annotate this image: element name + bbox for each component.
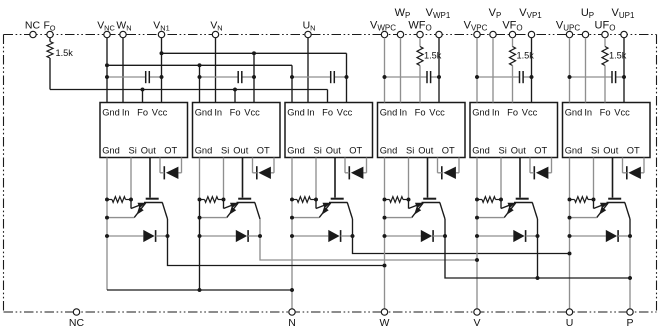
wire Q1 emitter to emitter rail <box>107 217 134 219</box>
junction C5 / VVP1 line <box>530 75 534 79</box>
capacitor C1 (U1 supply decoupling) leads <box>107 76 146 78</box>
IGBT Q3 sense-emitter lead with arrow <box>315 200 317 209</box>
U2 Out pin stub (gate lead) <box>242 158 244 198</box>
terminal F0 (top) <box>47 31 53 37</box>
terminal VWPC (top, W-phase high-side ground) <box>381 31 387 37</box>
junction emitter rail / emitter <box>290 216 294 220</box>
terminal NC (top) <box>30 31 36 37</box>
wire VF0 resistor to U5 Fo pin <box>512 66 514 103</box>
terminal W (bottom) <box>381 309 387 315</box>
svg-text:OT: OT <box>627 146 640 156</box>
IGBT Q3 gate bar <box>331 198 344 200</box>
wire cell 3 emitter rail down to terminal N <box>291 200 293 309</box>
svg-text:Gnd: Gnd <box>565 108 583 118</box>
junction C3 / U3 Vcc line <box>345 75 349 79</box>
resistor RS6 (sense resistor, Gnd to Si) <box>575 197 589 203</box>
wire WN to U1 In pin <box>122 38 124 103</box>
IGBT Q4 gate bar <box>423 198 436 200</box>
junction D1 cathode / collector <box>166 234 170 238</box>
IGBT Q2 collector lead <box>255 203 260 220</box>
wire UF0 resistor to U6 Fo pin <box>604 66 606 103</box>
diode D5 (freewheel) anode lead <box>477 235 513 237</box>
wire Q4 emitter to emitter rail <box>385 217 412 219</box>
wire Q6 emitter to emitter rail <box>570 217 597 219</box>
svg-text:Vcc: Vcc <box>152 108 168 118</box>
junction C6 / VUPC line <box>568 75 572 79</box>
wire VUPC to U6 Gnd pin <box>569 38 571 103</box>
U4 Out pin stub (gate lead) <box>427 158 429 198</box>
wire UN to U3 In pin <box>307 38 309 103</box>
junction D6 anode / emitter rail <box>568 234 572 238</box>
gate-driver IC U3 (box) <box>285 103 373 158</box>
terminal VVP1 (top, V-phase high-side supply) <box>528 31 534 37</box>
diode D4 body <box>421 230 432 242</box>
junction D5 cathode / collector <box>536 234 540 238</box>
diode D5 cathode lead <box>526 235 538 237</box>
junction D4 cathode / collector <box>443 234 447 238</box>
junction C4 / VWP1 line <box>437 75 441 79</box>
IGBT Q6 sense-emitter lead with arrow <box>593 200 595 209</box>
junction C6 / VUP1 line <box>622 75 626 79</box>
capacitor C4 plates <box>426 71 428 83</box>
svg-text:1.5k: 1.5k <box>56 48 74 58</box>
wire V phase riser (cell 5 emitter rail to terminal V) <box>476 200 478 309</box>
svg-text:Fo: Fo <box>600 108 611 118</box>
wire U2 Gnd pin drop <box>199 65 201 102</box>
wire Fo rail (to U1,U2,U3 Fo pins) <box>50 89 328 91</box>
U1 bottom pin labels Gnd Si Out OT <box>102 146 177 156</box>
junction D1 anode / emitter rail <box>105 234 109 238</box>
terminal N (bottom) <box>289 309 295 315</box>
wire cell 2 emitter rail <box>199 200 201 291</box>
IGBT Q2 emitter lead with arrow <box>227 203 239 218</box>
U6 Gnd pin stub (emitter-rail top) <box>569 158 571 200</box>
diode DT3 (temperature sense) anode/cathode <box>351 167 364 179</box>
diode D6 cathode lead <box>618 235 630 237</box>
IGBT Q4 body bar <box>422 202 441 204</box>
IGBT Q1 sense-emitter lead with arrow <box>130 200 132 209</box>
U4 bottom pin labels Gnd Si Out OT <box>380 146 455 156</box>
wire VNC to U1 Gnd pin <box>106 38 108 103</box>
wire DT3 cathode to stub <box>345 172 349 174</box>
resistor RS1 (sense resistor, Gnd to Si) <box>112 197 126 203</box>
gate-driver IC U6 (box) <box>563 103 651 158</box>
U2 Gnd pin stub (emitter-rail top) <box>199 158 201 200</box>
svg-text:Vcc: Vcc <box>429 108 445 118</box>
wire VN to U2 In pin <box>215 38 217 103</box>
junction RS4 / Si lead <box>407 198 411 202</box>
svg-text:Si: Si <box>129 146 137 156</box>
junction P bus / Q6 collector <box>628 276 632 280</box>
svg-text:In: In <box>214 108 222 118</box>
wire Q3 emitter to emitter rail <box>292 217 319 219</box>
capacitor C2 plates <box>237 71 239 83</box>
diode D2 (freewheel) anode lead <box>200 235 236 237</box>
wire DT5 cathode to stub <box>530 172 534 174</box>
svg-text:Vcc: Vcc <box>614 108 630 118</box>
terminal P (bottom) <box>627 309 633 315</box>
diode D4 cathode lead <box>433 235 445 237</box>
terminal WF0 (top, W-phase fault output) <box>417 31 423 37</box>
junction Vcc rail / U2 Vcc <box>252 51 256 55</box>
wire Q1 collector to W phase riser <box>168 219 385 266</box>
junction emitter rail / emitter <box>475 216 479 220</box>
junction D2 anode / emitter rail <box>198 234 202 238</box>
terminal UN (top, U-phase low-side input) <box>305 31 311 37</box>
svg-text:Gnd: Gnd <box>102 108 120 118</box>
diode D6 body <box>606 230 617 242</box>
IGBT Q4 emitter lead with arrow <box>412 203 424 218</box>
svg-text:Gnd: Gnd <box>472 146 490 156</box>
wire Q6 collector down to terminal P <box>629 219 631 236</box>
U6 OT pin stub <box>643 158 645 173</box>
junction VN1 / C1 <box>160 75 164 79</box>
module outline, right edge <box>656 35 658 313</box>
junction VNC / Gnd rail <box>105 63 109 67</box>
junction D6 cathode / collector <box>628 234 632 238</box>
U5 top pin labels Gnd In Fo Vcc <box>472 108 537 118</box>
diode DT4 (temperature sense) anode/cathode <box>443 167 456 179</box>
U1 Si pin stub <box>130 158 132 200</box>
U3 Gnd pin stub (emitter-rail top) <box>291 158 293 200</box>
capacitor C3 plates <box>330 71 332 83</box>
wire Q4 collector to P bus <box>445 219 630 278</box>
terminal V (bottom) <box>474 309 480 315</box>
gate-driver IC U4 (box) <box>378 103 466 158</box>
diode DT2 (temperature sense) anode/cathode <box>258 167 271 179</box>
capacitor C4 (U4 supply decoupling) leads <box>385 76 428 78</box>
junction dots overlay <box>105 51 632 292</box>
terminal VNC (top, N-side control ground) <box>104 31 110 37</box>
wire U3 Gnd pin drop <box>291 65 293 102</box>
junction RS3 / emitter rail <box>290 198 294 202</box>
wire F0 net: resistor to Fo rail <box>49 58 51 90</box>
wire N-side emitter rail, cell 1 (W low) <box>106 200 108 291</box>
junction RS5 / Si lead <box>499 198 503 202</box>
IGBT Q6 body bar <box>607 202 626 204</box>
U6 Si pin stub <box>593 158 595 200</box>
wire Q2 collector to V phase riser <box>260 219 477 260</box>
svg-text:In: In <box>492 108 500 118</box>
capacitor C5 plates <box>519 71 521 83</box>
junction Gnd rail / U2 Gnd <box>198 63 202 67</box>
svg-text:Si: Si <box>406 146 414 156</box>
svg-text:Gnd: Gnd <box>287 108 305 118</box>
wire VN1 Vcc rail (to U2,U3 Vcc pins) <box>162 52 347 54</box>
junction RS6 / emitter rail <box>568 198 572 202</box>
terminal VUP1 (top, U-phase high-side supply) <box>621 31 627 37</box>
U5 bottom pin labels Gnd Si Out OT <box>472 146 547 156</box>
svg-text:OT: OT <box>164 146 177 156</box>
terminal U (bottom) <box>566 309 572 315</box>
wire VVPC to U5 Gnd pin <box>476 38 478 103</box>
IGBT Q4 sense-emitter lead with arrow <box>408 200 410 209</box>
terminal NC (bottom) <box>73 309 79 315</box>
junction D4 anode / emitter rail <box>383 234 387 238</box>
junction C5 / VVPC line <box>475 75 479 79</box>
IGBT Q6 gate bar <box>608 198 621 200</box>
svg-text:Gnd: Gnd <box>472 108 490 118</box>
wire U1 Fo pin drop <box>142 90 144 103</box>
svg-text:In: In <box>122 108 130 118</box>
wire UP to U6 In pin <box>585 38 587 103</box>
wire WF0 resistor to U4 Fo pin <box>419 66 421 103</box>
wire Q5 emitter to emitter rail <box>477 217 504 219</box>
U1 OT pin stub <box>181 158 183 173</box>
junction RS4 / emitter rail <box>383 198 387 202</box>
U4 Gnd pin stub (emitter-rail top) <box>384 158 386 200</box>
wire DT4 cathode to stub <box>438 172 442 174</box>
U3 Si pin stub <box>315 158 317 200</box>
gate-driver IC U5 (box) <box>470 103 558 158</box>
wire U3 Vcc pin drop <box>346 53 348 102</box>
U4 OT pin stub <box>458 158 460 173</box>
svg-text:Vcc: Vcc <box>522 108 538 118</box>
junction C2 / U2 Gnd line <box>198 75 202 79</box>
svg-text:Gnd: Gnd <box>287 146 305 156</box>
svg-text:NC: NC <box>69 317 85 329</box>
IGBT Q5 collector lead <box>532 203 537 220</box>
junction emitter rail / emitter <box>568 216 572 220</box>
resistor R5 1.5k (VF0 pull-up) <box>512 38 514 47</box>
svg-text:U: U <box>566 317 574 329</box>
IGBT Q6 emitter lead with arrow <box>597 203 609 218</box>
U6 Out pin stub (gate lead) <box>612 158 614 198</box>
diode D2 cathode lead <box>248 235 260 237</box>
U6 bottom pin labels Gnd Si Out OT <box>565 146 640 156</box>
junction Fo rail / U1 Fo <box>141 88 145 92</box>
IGBT Q2 sense-emitter lead with arrow <box>223 200 225 209</box>
junction D3 cathode / collector <box>351 234 355 238</box>
svg-text:Out: Out <box>511 146 526 156</box>
diode DT1 (temperature sense) anode/cathode <box>166 167 179 179</box>
IGBT Q2 gate bar <box>238 198 251 200</box>
svg-text:Si: Si <box>314 146 322 156</box>
svg-text:P: P <box>626 317 633 329</box>
U1 Gnd pin stub (emitter-rail top) <box>106 158 108 200</box>
svg-text:Vcc: Vcc <box>337 108 353 118</box>
IGBT Q3 body bar <box>329 202 348 204</box>
svg-text:Fo: Fo <box>137 108 148 118</box>
wire Q5 collector drop <box>537 219 539 278</box>
resistor RS2 (sense resistor, Gnd to Si) <box>205 197 219 203</box>
svg-text:Si: Si <box>221 146 229 156</box>
capacitor C2 (U2 supply decoupling) leads <box>200 76 239 78</box>
terminal VN1 (top, N-side control supply) <box>158 31 164 37</box>
svg-text:NC: NC <box>25 20 41 32</box>
module outline, left edge <box>3 35 5 313</box>
terminal VP (top, V-phase high-side input) <box>490 31 496 37</box>
U5 Gnd pin stub (emitter-rail top) <box>476 158 478 200</box>
IGBT Q1 gate bar <box>146 198 159 200</box>
U4 Si pin stub <box>408 158 410 200</box>
wire DT1 cathode to stub <box>160 172 164 174</box>
svg-text:V: V <box>473 317 480 329</box>
wire VWP1 to U4 Vcc pin <box>438 38 440 103</box>
terminal UP (top, U-phase high-side input) <box>582 31 588 37</box>
IGBT Q5 body bar <box>514 202 533 204</box>
junction emitter rail / emitter <box>383 216 387 220</box>
U2 Si pin stub <box>223 158 225 200</box>
svg-text:Out: Out <box>603 146 618 156</box>
svg-text:Gnd: Gnd <box>195 146 213 156</box>
U1 Out pin stub (gate lead) <box>149 158 151 198</box>
terminal VN (top, V-phase low-side input) <box>212 31 218 37</box>
U3 OT pin stub <box>366 158 368 173</box>
wire WP to U4 In pin <box>400 38 402 103</box>
svg-text:N: N <box>288 317 296 329</box>
junction RS1 / emitter rail <box>105 198 109 202</box>
wire N bus <box>107 289 292 291</box>
junction RS3 / Si lead <box>314 198 318 202</box>
wire VWPC to U4 Gnd pin <box>384 38 386 103</box>
capacitor C6 (U6 supply decoupling) leads <box>570 76 613 78</box>
svg-text:Out: Out <box>418 146 433 156</box>
IGBT Q3 emitter lead with arrow <box>319 203 331 218</box>
terminal VVPC (top, V-phase high-side ground) <box>474 31 480 37</box>
junction emitter rail / emitter <box>198 216 202 220</box>
U5 OT pin stub <box>551 158 553 173</box>
junction U riser / Q3 collector line <box>568 252 572 256</box>
junction C4 / VWPC line <box>383 75 387 79</box>
U2 top pin labels Gnd In Fo Vcc <box>195 108 260 118</box>
diode D6 (freewheel) anode lead <box>570 235 606 237</box>
junction D2 cathode / collector <box>258 234 262 238</box>
junction V riser / Q2 collector line <box>475 258 479 262</box>
junction emitter rail / emitter <box>105 216 109 220</box>
wire VN1 to U1 Vcc pin <box>161 38 163 103</box>
diode D1 (freewheel) anode lead <box>107 235 143 237</box>
junction RS5 / emitter rail <box>475 198 479 202</box>
junction D5 anode / emitter rail <box>475 234 479 238</box>
diode D3 (freewheel) anode lead <box>292 235 328 237</box>
svg-text:OT: OT <box>257 146 270 156</box>
IGBT Q4 collector lead <box>440 203 445 220</box>
svg-text:Fo: Fo <box>322 108 333 118</box>
IGBT Q5 emitter lead with arrow <box>504 203 516 218</box>
diode D5 body <box>513 230 524 242</box>
junction W riser / Q1 collector line <box>383 264 387 268</box>
svg-text:Fo: Fo <box>415 108 426 118</box>
diode D3 body <box>328 230 339 242</box>
U2 bottom pin labels Gnd Si Out OT <box>195 146 270 156</box>
gate-driver IC U2 (box) <box>193 103 281 158</box>
wire U3 Fo pin drop <box>327 90 329 103</box>
U5 Si pin stub <box>500 158 502 200</box>
wire N bus to cell 2 emitter rail junction <box>198 288 202 292</box>
capacitor C5 (U5 supply decoupling) leads <box>477 76 520 78</box>
svg-text:OT: OT <box>534 146 547 156</box>
svg-text:Gnd: Gnd <box>102 146 120 156</box>
svg-text:Vcc: Vcc <box>244 108 260 118</box>
wire U phase riser (cell 6 emitter rail to terminal U) <box>569 200 571 309</box>
wire VNC Gnd rail (to U2,U3 Gnd pins) <box>107 64 292 66</box>
svg-text:Gnd: Gnd <box>380 108 398 118</box>
svg-text:Gnd: Gnd <box>380 146 398 156</box>
U1 top pin labels Gnd In Fo Vcc <box>102 108 167 118</box>
diode D3 cathode lead <box>341 235 353 237</box>
svg-text:OT: OT <box>349 146 362 156</box>
junction RS2 / emitter rail <box>198 198 202 202</box>
svg-text:Fo: Fo <box>507 108 518 118</box>
U6 top pin labels Gnd In Fo Vcc <box>565 108 630 118</box>
svg-text:Si: Si <box>591 146 599 156</box>
wire DT2 cathode to stub <box>253 172 257 174</box>
U5 Out pin stub (gate lead) <box>519 158 521 198</box>
svg-text:In: In <box>307 108 315 118</box>
wire DT6 cathode to stub <box>623 172 627 174</box>
wire W phase riser (cell 4 emitter rail to terminal W) <box>384 200 386 309</box>
junction C2 / U2 Vcc line <box>252 75 256 79</box>
junction RS2 / Si lead <box>222 198 226 202</box>
terminal VUPC (top, U-phase high-side ground) <box>566 31 572 37</box>
resistor R4 1.5k (WF0 pull-up) <box>419 38 421 47</box>
resistor RS4 (sense resistor, Gnd to Si) <box>390 197 404 203</box>
U3 Out pin stub (gate lead) <box>334 158 336 198</box>
svg-text:In: In <box>584 108 592 118</box>
svg-text:In: In <box>399 108 407 118</box>
wire VUP1 to U6 Vcc pin <box>623 38 625 103</box>
IGBT Q5 sense-emitter lead with arrow <box>500 200 502 209</box>
terminal VF0 (top, V-phase fault output) <box>509 31 515 37</box>
wire U2 Vcc pin drop <box>253 53 255 102</box>
terminal WN (top, W-phase low-side input) <box>120 31 126 37</box>
diode DT6 (temperature sense) anode/cathode <box>628 167 641 179</box>
terminal UF0 (top, U-phase fault output) <box>602 31 608 37</box>
wire VVP1 to U5 Vcc pin <box>531 38 533 103</box>
wire Q3 collector to U phase riser <box>353 219 570 254</box>
resistor R1 1.5k (F0 pull-up) <box>49 38 51 42</box>
U2 OT pin stub <box>273 158 275 173</box>
junction C3 / U3 Gnd line <box>290 75 294 79</box>
IGBT Q3 collector lead <box>347 203 352 220</box>
resistor RS5 (sense resistor, Gnd to Si) <box>482 197 496 203</box>
wire Q2 emitter to emitter rail <box>200 217 227 219</box>
junction N bus / N terminal riser <box>290 288 294 292</box>
module outline, bottom edge <box>4 311 657 313</box>
junction RS1 / Si lead <box>129 198 133 202</box>
diode D1 body <box>143 230 154 242</box>
wire VP to U5 In pin <box>492 38 494 103</box>
diode D2 body <box>236 230 247 242</box>
U4 top pin labels Gnd In Fo Vcc <box>380 108 445 118</box>
junction VNC / C1 <box>105 75 109 79</box>
terminal VWP1 (top, W-phase high-side supply) <box>436 31 442 37</box>
svg-text:Out: Out <box>141 146 156 156</box>
junction Fo rail / U2 Fo <box>233 88 237 92</box>
capacitor C6 plates <box>611 71 613 83</box>
wire U2 Fo pin drop <box>234 90 236 103</box>
capacitor C1 plates <box>145 71 147 83</box>
junction D3 anode / emitter rail <box>290 234 294 238</box>
IGBT Q1 emitter lead with arrow <box>134 203 146 218</box>
resistor R6 1.5k (UF0 pull-up) <box>604 38 606 47</box>
junction VN1 / Vcc rail <box>160 51 164 55</box>
terminal WP (top, W-phase high-side input) <box>397 31 403 37</box>
U3 bottom pin labels Gnd Si Out OT <box>287 146 362 156</box>
svg-text:Out: Out <box>326 146 341 156</box>
svg-text:W: W <box>380 317 390 329</box>
svg-text:Si: Si <box>499 146 507 156</box>
svg-text:Fo: Fo <box>230 108 241 118</box>
diode D1 cathode lead <box>156 235 168 237</box>
svg-text:Gnd: Gnd <box>195 108 213 118</box>
junction RS6 / Si lead <box>592 198 596 202</box>
IGBT Q2 body bar <box>237 202 256 204</box>
IGBT Q6 collector lead <box>625 203 630 220</box>
module outline (dash-dot border), top edge <box>4 34 657 36</box>
IGBT Q1 collector lead <box>162 203 167 220</box>
